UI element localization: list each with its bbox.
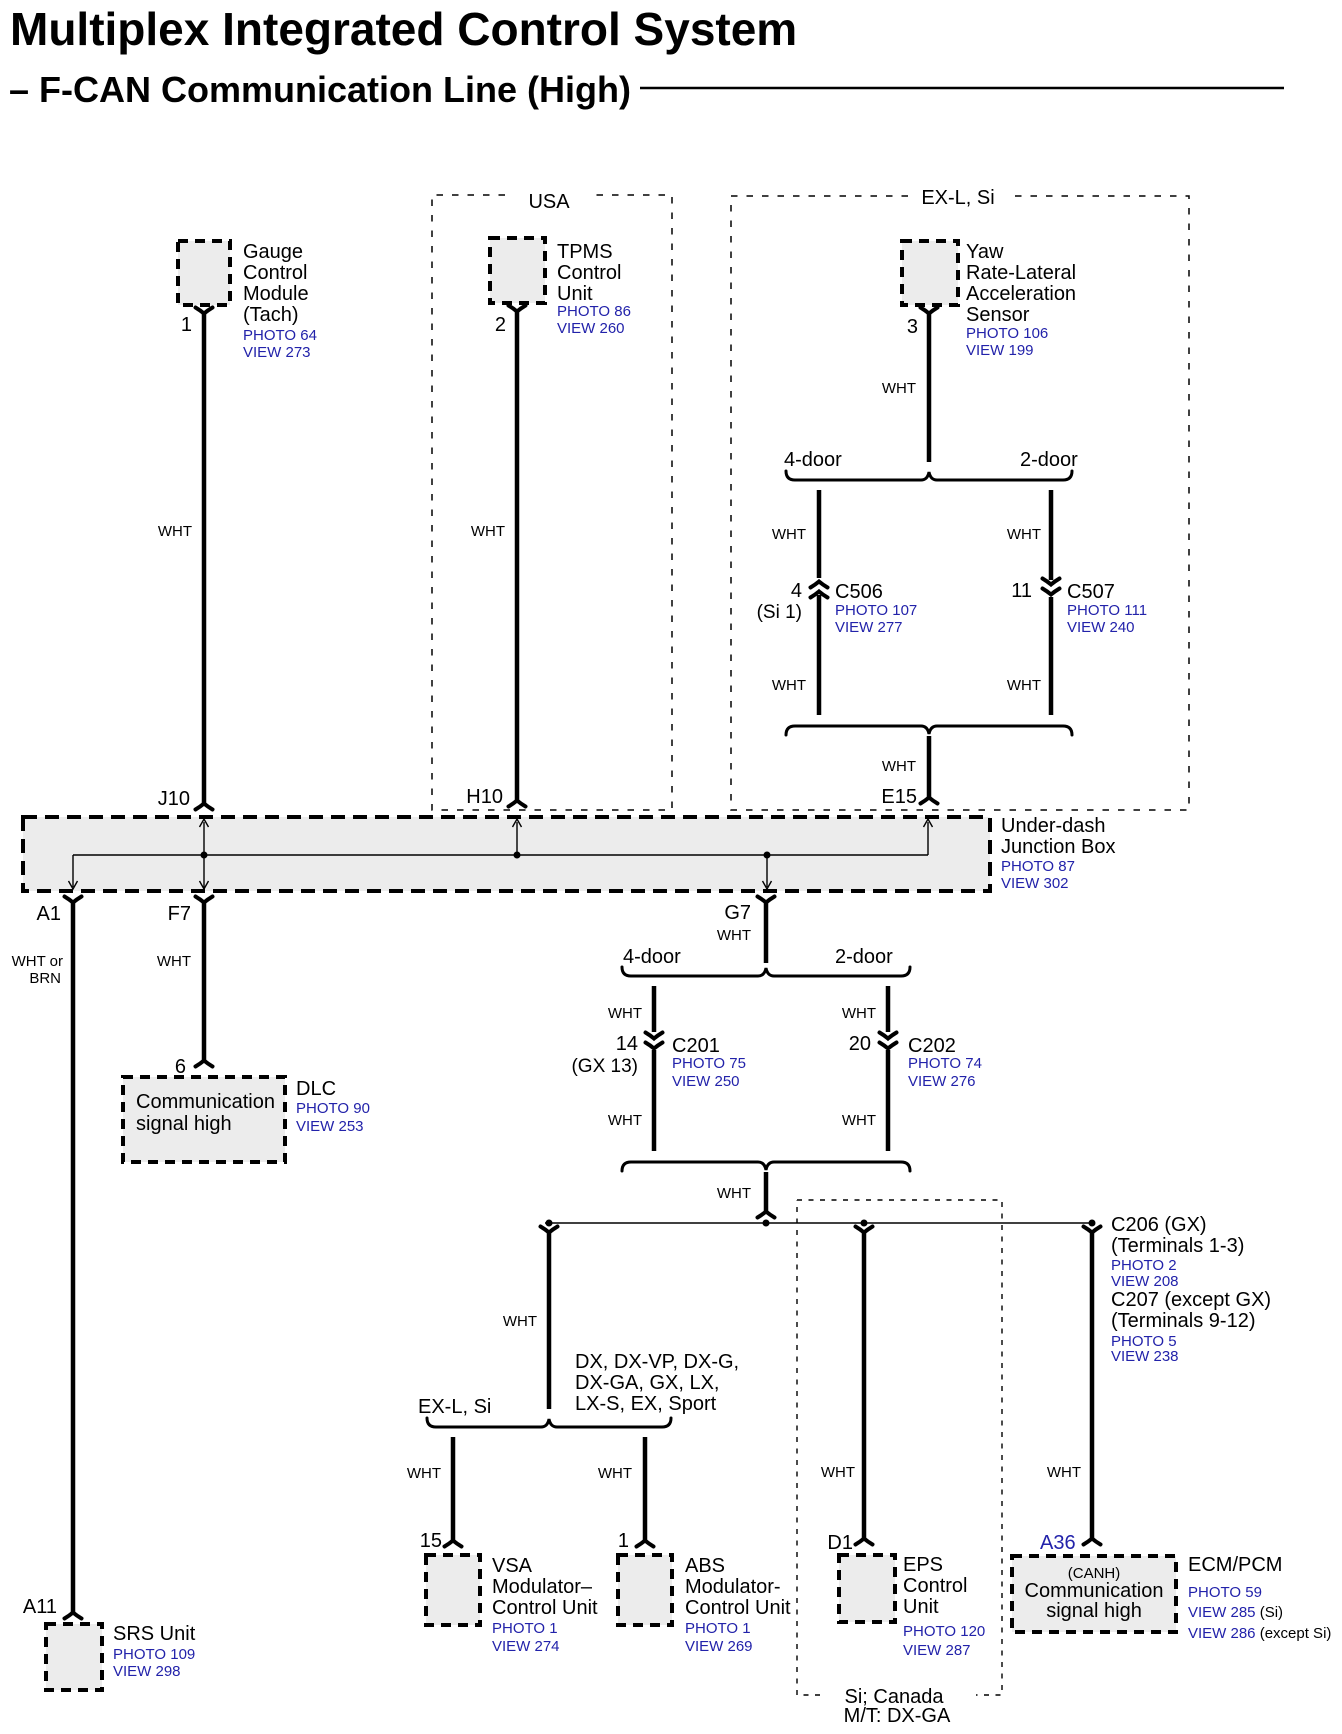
- svg-text:ABS: ABS: [685, 1555, 725, 1577]
- wire WHT C201 branch upper: [608, 986, 654, 1032]
- svg-text:Control Unit: Control Unit: [685, 1597, 791, 1619]
- svg-text:Yaw: Yaw: [966, 241, 1004, 263]
- svg-text:G7: G7: [724, 902, 751, 924]
- svg-text:PHOTO 64: PHOTO 64: [243, 327, 317, 344]
- svg-text:PHOTO 120: PHOTO 120: [903, 1623, 985, 1640]
- title rule: [640, 87, 1284, 90]
- svg-text:WHT: WHT: [471, 523, 505, 540]
- svg-text:WHT: WHT: [772, 526, 806, 543]
- svg-text:H10: H10: [466, 786, 503, 808]
- svg-text:PHOTO 74: PHOTO 74: [908, 1055, 982, 1072]
- svg-text:WHT: WHT: [842, 1005, 876, 1022]
- wire WHT G7 to split: [717, 903, 766, 963]
- svg-text:A11: A11: [23, 1596, 57, 1618]
- svg-text:DX-GA, GX, LX,: DX-GA, GX, LX,: [575, 1372, 719, 1394]
- svg-text:2: 2: [495, 314, 506, 336]
- svg-text:14: 14: [616, 1033, 638, 1055]
- svg-text:6: 6: [175, 1056, 186, 1078]
- svg-text:Acceleration: Acceleration: [966, 283, 1076, 305]
- component EPS Control Unit: [839, 1554, 985, 1659]
- component VSA Modulator-Control Unit: [426, 1555, 598, 1655]
- svg-text:LX-S, EX, Sport: LX-S, EX, Sport: [575, 1393, 717, 1415]
- svg-text:(Si 1): (Si 1): [757, 602, 802, 623]
- svg-text:Under-dash: Under-dash: [1001, 815, 1106, 837]
- svg-text:BRN: BRN: [29, 970, 61, 987]
- connector C507: [1011, 579, 1147, 637]
- svg-text:VIEW 250: VIEW 250: [672, 1073, 740, 1090]
- svg-text:C201: C201: [672, 1035, 720, 1057]
- svg-text:4-door: 4-door: [623, 946, 681, 968]
- wire WHT to VSA: [407, 1437, 462, 1547]
- svg-text:(Terminals 9-12): (Terminals 9-12): [1111, 1310, 1255, 1332]
- svg-text:EX-L, Si: EX-L, Si: [418, 1396, 491, 1418]
- pin 2 TPMS Control Unit: [495, 306, 526, 337]
- svg-text:Module: Module: [243, 283, 309, 305]
- merge bracket (G7 branches): [622, 1162, 910, 1171]
- svg-text:E15: E15: [881, 786, 917, 808]
- svg-text:WHT: WHT: [608, 1112, 642, 1129]
- svg-text:VIEW 274: VIEW 274: [492, 1638, 560, 1655]
- svg-text:PHOTO 111: PHOTO 111: [1067, 602, 1147, 619]
- svg-text:WHT: WHT: [842, 1112, 876, 1129]
- pin G7 junction box: [724, 897, 774, 925]
- wire WHT 4-door branch upper: [772, 490, 819, 578]
- svg-text:(Terminals 1-3): (Terminals 1-3): [1111, 1235, 1244, 1257]
- split bracket 4-door / 2-door (yaw): [784, 449, 1078, 480]
- svg-text:Communication: Communication: [1025, 1580, 1164, 1602]
- svg-text:A36: A36: [1040, 1532, 1076, 1554]
- svg-text:C202: C202: [908, 1035, 956, 1057]
- svg-text:20: 20: [849, 1033, 871, 1055]
- svg-text:WHT: WHT: [882, 758, 916, 775]
- connector C201: [571, 1033, 745, 1091]
- svg-text:C506: C506: [835, 581, 883, 603]
- svg-text:Unit: Unit: [557, 283, 593, 305]
- svg-text:EX-L, Si: EX-L, Si: [921, 187, 994, 209]
- svg-text:WHT: WHT: [157, 953, 191, 970]
- wire WHT 2-door branch upper: [1007, 490, 1051, 580]
- svg-text:USA: USA: [528, 191, 570, 213]
- svg-text:4-door: 4-door: [784, 449, 842, 471]
- svg-text:PHOTO 59: PHOTO 59: [1188, 1584, 1262, 1601]
- svg-text:Control Unit: Control Unit: [492, 1597, 598, 1619]
- wire WHT merge to bus: [717, 1172, 775, 1218]
- svg-text:VIEW 298: VIEW 298: [113, 1663, 181, 1680]
- svg-text:WHT: WHT: [503, 1313, 537, 1330]
- svg-text:PHOTO 1: PHOTO 1: [685, 1620, 751, 1637]
- svg-text:VIEW 287: VIEW 287: [903, 1642, 971, 1659]
- wire WHT bus to ECM/PCM: [1047, 1227, 1101, 1545]
- component Yaw Rate-Lateral Acceleration Sensor: [902, 241, 1076, 359]
- svg-text:WHT: WHT: [158, 523, 192, 540]
- svg-text:A1: A1: [37, 903, 61, 925]
- svg-text:Control: Control: [557, 262, 621, 284]
- svg-text:VIEW 276: VIEW 276: [908, 1073, 976, 1090]
- svg-text:M/T: DX-GA: M/T: DX-GA: [844, 1705, 951, 1727]
- pin 1 Gauge Control Module: [181, 308, 213, 337]
- pin F7 junction box: [168, 897, 213, 926]
- svg-text:WHT: WHT: [772, 677, 806, 694]
- svg-text:PHOTO 2: PHOTO 2: [1111, 1257, 1177, 1274]
- component Gauge Control Module (Tach): [178, 241, 317, 361]
- svg-text:Rate-Lateral: Rate-Lateral: [966, 262, 1076, 284]
- svg-text:Gauge: Gauge: [243, 241, 303, 263]
- svg-text:Modulator–: Modulator–: [492, 1576, 593, 1598]
- svg-text:PHOTO 1: PHOTO 1: [492, 1620, 558, 1637]
- svg-text:VIEW 273: VIEW 273: [243, 344, 311, 361]
- region box Si; Canada M/T: DX-GA: [797, 1200, 1002, 1727]
- svg-text:C207 (except GX): C207 (except GX): [1111, 1289, 1271, 1311]
- svg-text:J10: J10: [158, 788, 190, 810]
- svg-text:WHT: WHT: [1047, 1464, 1081, 1481]
- merge bracket (yaw branches): [786, 726, 1072, 735]
- component TPMS Control Unit: [490, 238, 631, 337]
- svg-text:C206 (GX): C206 (GX): [1111, 1214, 1207, 1236]
- split bracket 4-door / 2-door (G7): [622, 946, 910, 976]
- svg-text:WHT or: WHT or: [12, 953, 63, 970]
- wire WHT TPMS to H10: [471, 312, 526, 807]
- wire WHT C202 branch upper: [842, 986, 888, 1032]
- svg-text:VIEW 285 (Si): VIEW 285 (Si): [1188, 1604, 1283, 1621]
- svg-text:signal high: signal high: [1046, 1600, 1142, 1622]
- svg-text:VIEW 253: VIEW 253: [296, 1118, 364, 1135]
- svg-text:Unit: Unit: [903, 1596, 939, 1618]
- svg-text:DLC: DLC: [296, 1078, 336, 1100]
- component Under-dash Junction Box: [23, 815, 1116, 892]
- component DLC Communication signal high: [123, 1077, 370, 1162]
- svg-text:F7: F7: [168, 903, 191, 925]
- svg-text:1: 1: [181, 314, 192, 336]
- split bracket VSA/ABS: [427, 1418, 671, 1427]
- svg-text:ECM/PCM: ECM/PCM: [1188, 1554, 1282, 1576]
- region box EX-L, Si: [731, 187, 1189, 810]
- pin 3 Yaw sensor: [907, 308, 938, 339]
- svg-text:VIEW 260: VIEW 260: [557, 320, 625, 337]
- svg-text:1: 1: [618, 1530, 629, 1552]
- wire WHT F7 to DLC: [157, 903, 213, 1067]
- component SRS Unit: [46, 1623, 196, 1690]
- svg-text:2-door: 2-door: [835, 946, 893, 968]
- svg-text:VIEW 199: VIEW 199: [966, 342, 1034, 359]
- label connectors C206/C207: [1111, 1214, 1271, 1365]
- svg-text:Control: Control: [243, 262, 307, 284]
- svg-text:WHT: WHT: [598, 1465, 632, 1482]
- svg-text:PHOTO 109: PHOTO 109: [113, 1646, 195, 1663]
- svg-text:VIEW 269: VIEW 269: [685, 1638, 753, 1655]
- svg-text:4: 4: [791, 580, 802, 602]
- svg-text:PHOTO 107: PHOTO 107: [835, 602, 917, 619]
- component ABS Modulator-Control Unit: [618, 1555, 791, 1655]
- svg-text:Junction Box: Junction Box: [1001, 836, 1116, 858]
- svg-text:(Tach): (Tach): [243, 304, 299, 326]
- svg-text:EPS: EPS: [903, 1554, 943, 1576]
- svg-text:3: 3: [907, 316, 918, 338]
- svg-text:VIEW 238: VIEW 238: [1111, 1348, 1179, 1365]
- wire WHT Gauge to J10: [158, 314, 213, 810]
- svg-text:VIEW 277: VIEW 277: [835, 619, 903, 636]
- svg-text:signal high: signal high: [136, 1113, 232, 1135]
- connector C202: [849, 1033, 982, 1091]
- wire WHT 4-door branch lower: [772, 595, 819, 715]
- svg-text:WHT: WHT: [717, 1185, 751, 1202]
- wire WHT bus to VSA/ABS split: [503, 1227, 558, 1410]
- svg-text:PHOTO 75: PHOTO 75: [672, 1055, 746, 1072]
- svg-text:– F-CAN Communication Line (Hi: – F-CAN Communication Line (High): [9, 69, 631, 110]
- svg-text:15: 15: [420, 1530, 442, 1552]
- svg-text:WHT: WHT: [1007, 677, 1041, 694]
- pin A1 junction box: [37, 897, 82, 926]
- svg-text:PHOTO 106: PHOTO 106: [966, 325, 1048, 342]
- label trims DX list: [575, 1351, 739, 1415]
- svg-text:WHT: WHT: [608, 1005, 642, 1022]
- wire WHT Yaw sensor to split: [882, 314, 929, 462]
- svg-text:WHT: WHT: [717, 927, 751, 944]
- svg-text:VSA: VSA: [492, 1555, 533, 1577]
- svg-text:WHT: WHT: [407, 1465, 441, 1482]
- svg-text:Control: Control: [903, 1575, 967, 1597]
- svg-text:TPMS: TPMS: [557, 241, 613, 263]
- svg-text:2-door: 2-door: [1020, 449, 1078, 471]
- region box USA: [432, 191, 672, 810]
- svg-text:Sensor: Sensor: [966, 304, 1030, 326]
- svg-text:Communication: Communication: [136, 1091, 275, 1113]
- svg-text:D1: D1: [827, 1532, 853, 1554]
- svg-text:PHOTO 87: PHOTO 87: [1001, 858, 1075, 875]
- svg-text:PHOTO 90: PHOTO 90: [296, 1100, 370, 1117]
- junction box internal bus: [69, 819, 933, 889]
- connector C506: [757, 580, 918, 636]
- svg-text:Modulator-: Modulator-: [685, 1576, 781, 1598]
- svg-text:C507: C507: [1067, 581, 1115, 603]
- svg-text:WHT: WHT: [1007, 526, 1041, 543]
- svg-text:WHT: WHT: [821, 1464, 855, 1481]
- svg-text:(GX 13): (GX 13): [571, 1056, 638, 1077]
- wire WHT 2-door branch lower: [1007, 597, 1051, 715]
- svg-text:SRS Unit: SRS Unit: [113, 1623, 196, 1645]
- svg-text:DX, DX-VP, DX-G,: DX, DX-VP, DX-G,: [575, 1351, 739, 1373]
- wire WHT C202 branch lower: [842, 1050, 888, 1151]
- wire WHT to ABS: [598, 1437, 654, 1547]
- wire WHT or BRN A1 to SRS: [12, 903, 82, 1619]
- svg-text:VIEW 208: VIEW 208: [1111, 1273, 1179, 1290]
- wire WHT bus to EPS: [821, 1227, 873, 1545]
- svg-text:11: 11: [1011, 580, 1032, 602]
- svg-text:VIEW 302: VIEW 302: [1001, 875, 1069, 892]
- svg-text:VIEW 240: VIEW 240: [1067, 619, 1135, 636]
- wire WHT C201 branch lower: [608, 1050, 654, 1151]
- wire WHT merge to E15: [882, 736, 938, 804]
- svg-text:PHOTO 86: PHOTO 86: [557, 303, 631, 320]
- svg-text:WHT: WHT: [882, 380, 916, 397]
- component ECM/PCM Communication signal high: [1012, 1554, 1331, 1642]
- svg-text:Multiplex Integrated Control S: Multiplex Integrated Control System: [10, 3, 797, 55]
- bus wire to modules: [545, 1220, 1096, 1227]
- svg-text:VIEW 286 (except Si): VIEW 286 (except Si): [1188, 1625, 1331, 1642]
